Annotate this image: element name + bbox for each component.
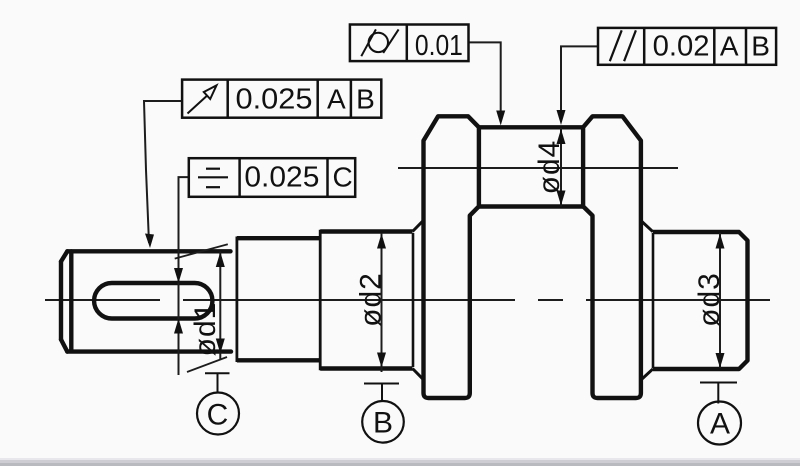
runout frame leader [144, 101, 182, 243]
shaft section 4 od3 journal [653, 232, 748, 369]
parallelism frame leader [561, 46, 598, 121]
cylindricity symbol [361, 29, 398, 56]
svg-text:B: B [373, 407, 393, 440]
svg-text:B: B [356, 84, 375, 115]
symmetry symbol [198, 169, 228, 188]
svg-text:0.01: 0.01 [415, 30, 463, 62]
symmetry feature control frame [189, 158, 355, 197]
od1 dimension line [219, 252, 221, 360]
svg-text:ød3: ød3 [693, 272, 726, 327]
crank web 2 [583, 116, 641, 398]
crank web 1 [424, 116, 479, 398]
datum C stem [217, 373, 219, 392]
svg-text:0.025: 0.025 [236, 84, 313, 116]
od4 arrow up [557, 129, 566, 144]
od3 web undercut chamfer top [641, 221, 653, 232]
datum B bar [364, 383, 399, 385]
od2 arrow up [377, 234, 386, 249]
svg-text:0.025: 0.025 [244, 162, 319, 194]
od2 arrow down [377, 353, 386, 368]
od3 arrow up [716, 234, 725, 249]
main axis centerline [45, 299, 770, 301]
od4 arrow down [557, 191, 566, 206]
svg-text:ød2: ød2 [355, 272, 388, 327]
svg-text:A: A [710, 408, 730, 441]
cylindricity leader arrow [496, 111, 505, 126]
parallelism symbol [610, 30, 636, 61]
svg-text:0.02: 0.02 [653, 30, 710, 62]
od1 arrow up [216, 252, 225, 267]
svg-text:ød1: ød1 [189, 302, 222, 357]
od1 oblique slash bottom [187, 357, 227, 372]
runout feature control frame [182, 80, 381, 118]
od4 dimension line [560, 128, 562, 207]
cylindricity feature control frame [350, 25, 469, 62]
datum A bar [700, 382, 737, 384]
svg-text:A: A [720, 30, 739, 61]
parallelism leader arrow [557, 110, 566, 125]
datum A circle [698, 402, 741, 445]
od2 dimension line [381, 233, 383, 372]
shaft section 3 od2 journal [320, 230, 412, 370]
datum C bar [205, 372, 230, 374]
svg-text:C: C [332, 162, 352, 193]
od2 web undercut chamfer bottom [413, 369, 424, 380]
datum B stem [381, 384, 383, 402]
svg-text:C: C [207, 399, 229, 432]
svg-text:A: A [327, 84, 346, 115]
datum B circle [362, 401, 404, 443]
runout symbol [188, 85, 217, 113]
cylindricity frame leader [469, 42, 501, 121]
svg-text:ød4: ød4 [533, 140, 566, 195]
od2 web undercut chamfer top [413, 220, 424, 231]
datum A stem [717, 383, 719, 404]
od3 dimension line [719, 233, 721, 368]
od1 arrow down [216, 339, 225, 354]
parallelism feature control frame [598, 28, 776, 65]
shaft section 2 step [237, 237, 320, 363]
crank pin centerline [398, 167, 678, 169]
od3 arrow down [716, 353, 725, 368]
keyway dim arrow bottom (up) [174, 319, 183, 334]
runout leader arrow [145, 234, 154, 249]
od2 right end edge [412, 233, 415, 367]
keyway width dimension line + symmetry leader [179, 177, 189, 375]
od1 oblique slash top [175, 244, 228, 258]
od3 left end edge [652, 233, 655, 368]
keyway dim arrow top (down) [174, 268, 183, 283]
crank pin [479, 127, 583, 206]
svg-text:B: B [751, 30, 770, 61]
keyway slot [94, 283, 212, 319]
shaft section 1 keyway end outline [61, 251, 231, 351]
datum C circle [197, 393, 239, 435]
bottom gray strip [0, 458, 800, 460]
od3 web undercut chamfer bottom [641, 369, 653, 380]
